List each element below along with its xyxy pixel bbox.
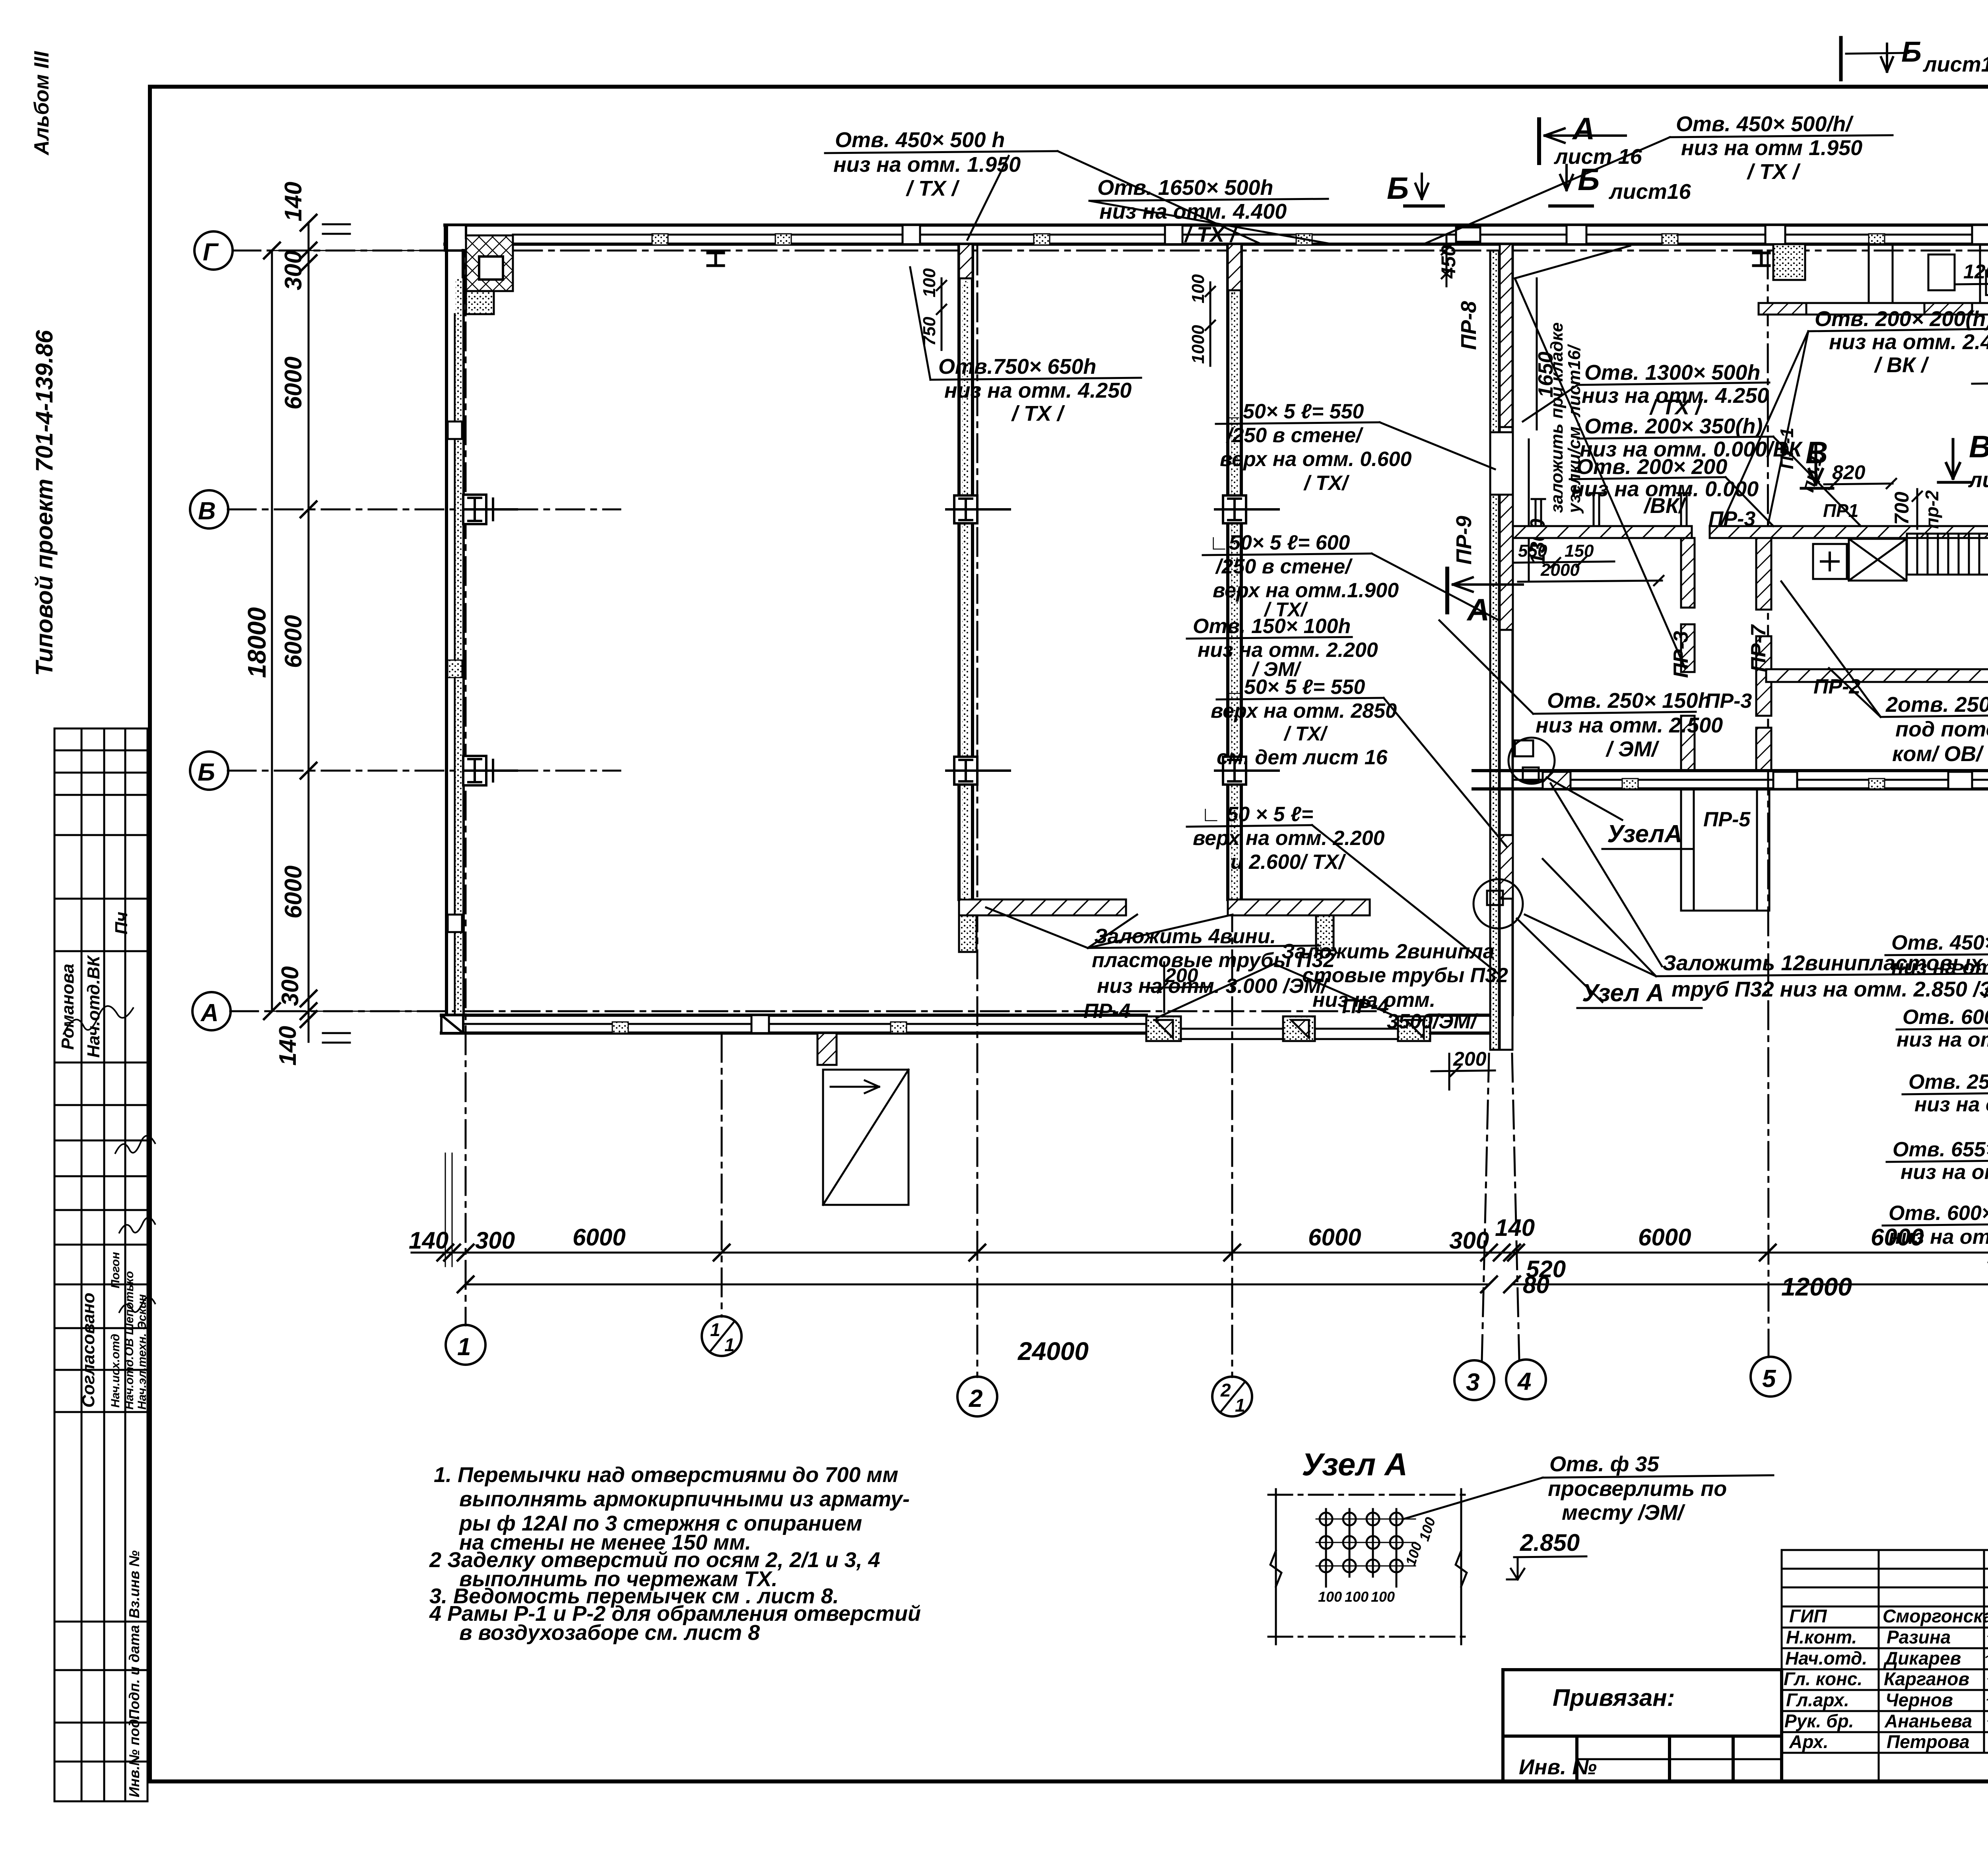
axis dash-dot lines xyxy=(228,229,1988,1377)
svg-text:лист16: лист16 xyxy=(1608,180,1691,204)
annotation Отв.750х650 xyxy=(938,355,1132,425)
svg-text:Привязан:: Привязан: xyxy=(1553,1684,1675,1711)
svg-text:Отв.750× 650h: Отв.750× 650h xyxy=(938,355,1096,379)
svg-text:Нач.отд.: Нач.отд. xyxy=(1785,1648,1867,1669)
узел А labels on plan xyxy=(1582,820,1682,1007)
svg-text:Инв.№ под.: Инв.№ под. xyxy=(126,1715,142,1797)
svg-text:Рук. бр.: Рук. бр. xyxy=(1784,1711,1854,1731)
small rooms top right xyxy=(1773,244,1988,303)
svg-text:ПР-3: ПР-3 xyxy=(1708,507,1755,530)
привязан box xyxy=(1503,1670,1782,1781)
svg-text:Узел А: Узел А xyxy=(1302,1447,1408,1482)
door opening ПР-4 jambs in bottom wall xyxy=(1146,1016,1430,1041)
svg-text:2отв. 250× 250h: 2отв. 250× 250h xyxy=(1885,693,1988,717)
svg-text:пр-2: пр-2 xyxy=(1922,490,1942,529)
svg-text:140: 140 xyxy=(409,1227,448,1254)
top wall window mullion blocks xyxy=(652,225,1988,245)
svg-text:100: 100 xyxy=(920,268,939,297)
section mark А top xyxy=(1539,111,1642,169)
section mark Б left xyxy=(1387,171,1443,206)
svg-text:Гл. конс.: Гл. конс. xyxy=(1784,1669,1862,1689)
Заложить 12 винипластовых xyxy=(1662,951,1988,1001)
svg-text:верх на отм. 0.600: верх на отм. 0.600 xyxy=(1220,448,1412,471)
svg-text:В: В xyxy=(198,497,216,525)
svg-text:200: 200 xyxy=(1453,1048,1487,1070)
svg-text:Б: Б xyxy=(1387,171,1409,206)
svg-text:Дикарев: Дикарев xyxy=(1883,1648,1961,1669)
leader lines узел А xyxy=(1517,777,1662,1002)
svg-text:/ВК/: /ВК/ xyxy=(1643,494,1687,518)
svg-text:Пч: Пч xyxy=(112,912,131,934)
right section: horizontal wall band ПР-3 level xyxy=(1513,526,1988,538)
svg-text:Нач.отд.ВК: Нач.отд.ВК xyxy=(84,955,103,1058)
svg-text:Отв. 450× 500/h/: Отв. 450× 500/h/ xyxy=(1676,112,1854,136)
svg-text:Отв. 450× 450: Отв. 450× 450 xyxy=(1891,931,1988,954)
svg-text:300: 300 xyxy=(277,966,303,1006)
interior wall axis 2/1 xyxy=(1228,244,1241,899)
svg-text:Отв. 600× 1000: Отв. 600× 1000 xyxy=(1889,1202,1988,1225)
svg-text:низ на отм. 3.200: низ на отм. 3.200 xyxy=(1901,1161,1988,1184)
Заложить 4 вини xyxy=(1092,925,1335,998)
450 dim at joint wall top xyxy=(1456,227,1480,242)
svg-text:700: 700 xyxy=(1891,491,1913,525)
grid circle 5 xyxy=(1751,1357,1790,1397)
svg-text:Романова: Романова xyxy=(58,963,78,1050)
svg-text:Г: Г xyxy=(203,239,219,266)
svg-text:ГИП: ГИП xyxy=(1789,1606,1827,1626)
svg-text:В: В xyxy=(1969,429,1988,464)
svg-text:Отв. 600× 600: Отв. 600× 600 xyxy=(1903,1006,1988,1029)
svg-text:Инв. №: Инв. № xyxy=(1519,1755,1597,1779)
svg-text:/250 в стене/: /250 в стене/ xyxy=(1226,424,1364,447)
left dimension numbers xyxy=(243,182,307,1066)
svg-text:5: 5 xyxy=(1762,1365,1776,1393)
Заложить 2 винипла xyxy=(1281,940,1508,1033)
vertical interior wall right section xyxy=(1756,538,1771,771)
svg-text:низ на отм 1.950: низ на отм 1.950 xyxy=(1681,136,1862,160)
узел А detail frame xyxy=(1268,1489,1471,1644)
svg-text:1: 1 xyxy=(1235,1395,1245,1416)
bottom dimension numbers xyxy=(409,1214,1988,1366)
svg-text:Узел А: Узел А xyxy=(1582,979,1664,1007)
svg-text:ПР-5: ПР-5 xyxy=(1703,808,1751,831)
svg-text:450: 450 xyxy=(1437,245,1460,279)
svg-text:12000: 12000 xyxy=(1781,1272,1852,1301)
section mark Б top right xyxy=(1841,36,1988,80)
big diagonal in right hall xyxy=(1515,278,1685,668)
svg-text:/ ТХ /: / ТХ / xyxy=(1747,160,1801,184)
2отв 250х250 под потолком xyxy=(1885,693,1988,766)
узел А circle grid xyxy=(1316,1509,1415,1587)
svg-text:низ на отм. 2.400: низ на отм. 2.400 xyxy=(1829,330,1988,354)
svg-text:А: А xyxy=(200,999,219,1027)
grid circle 4 xyxy=(1506,1360,1546,1399)
svg-text:и 2.600/ ТХ/: и 2.600/ ТХ/ xyxy=(1231,851,1347,874)
svg-text:/ ТХ/: / ТХ/ xyxy=(1283,723,1328,745)
svg-text:Отв. 450× 500 h: Отв. 450× 500 h xyxy=(835,128,1005,152)
svg-text:Отв. ф 35: Отв. ф 35 xyxy=(1549,1452,1659,1476)
svg-text:/ОВ/: /ОВ/ xyxy=(1983,979,1988,1002)
svg-text:520: 520 xyxy=(1526,1256,1566,1282)
svg-text:550: 550 xyxy=(1518,541,1547,561)
pilaster and ramp below bottom wall near axis 2 xyxy=(817,1033,909,1205)
svg-text:100: 100 xyxy=(1371,1589,1395,1605)
svg-text:Альбом III: Альбом III xyxy=(30,51,53,156)
grid circle Г xyxy=(194,231,233,270)
bottom exterior wall row А xyxy=(441,1015,1489,1033)
svg-text:месту /ЭМ/: месту /ЭМ/ xyxy=(1562,1501,1685,1525)
svg-text:1: 1 xyxy=(710,1319,720,1340)
1650 1300 rotated dims xyxy=(1529,278,1537,581)
svg-text:/ ВК /: / ВК / xyxy=(1874,353,1929,377)
svg-text:2: 2 xyxy=(969,1385,982,1412)
svg-text:низ на отм. 4.750: низ на отм. 4.750 xyxy=(1914,1093,1988,1116)
svg-text:Отв. 250× 250: Отв. 250× 250 xyxy=(1908,1070,1988,1094)
узел А marker circles on plan xyxy=(1474,738,1555,928)
svg-text:ПР-8: ПР-8 xyxy=(1457,301,1481,350)
svg-text:/ ЭМ/: / ЭМ/ xyxy=(1606,737,1660,761)
svg-text:лист16: лист16 xyxy=(1922,52,1988,76)
svg-text:100: 100 xyxy=(1188,274,1208,303)
svg-text:ПР-3: ПР-3 xyxy=(1670,631,1693,678)
svg-text:труб П32 низ на отм. 2.850 /Э: труб П32 низ на отм. 2.850 /ЭМ/ xyxy=(1672,977,1988,1001)
svg-text:Подп. и дата: Подп. и дата xyxy=(126,1625,142,1720)
svg-text:6000: 6000 xyxy=(280,866,307,919)
svg-text:ПР1: ПР1 xyxy=(1823,500,1858,521)
svg-text:Арх.: Арх. xyxy=(1789,1731,1829,1752)
svg-text:140: 140 xyxy=(280,182,307,221)
annotation Отв.450х500 top left xyxy=(833,128,1021,200)
svg-text:300: 300 xyxy=(1449,1227,1489,1254)
svg-text:выполнять армокирпичными из: выполнять армокирпичными из армату- xyxy=(459,1487,910,1511)
svg-text:6000: 6000 xyxy=(280,357,307,410)
svg-text:Сморгонская: Сморгонская xyxy=(1883,1606,1988,1626)
pipe posts above band xyxy=(1532,493,1691,526)
pilaster row Б on left wall xyxy=(463,756,517,785)
interior wall axis 2 xyxy=(959,244,973,899)
svg-text:Гл.арх.: Гл.арх. xyxy=(1786,1690,1849,1710)
svg-text:4: 4 xyxy=(1517,1368,1531,1395)
section mark Б with лист16 xyxy=(1550,162,1691,206)
grid circle 3 xyxy=(1454,1360,1494,1400)
svg-text:ПР-3: ПР-3 xyxy=(1705,690,1752,713)
grid circle Б xyxy=(190,752,228,790)
svg-text:120: 120 xyxy=(1963,260,1988,283)
margin signatures xyxy=(64,1006,155,1312)
svg-text:Типовой проект 701-4-139.86: Типовой проект 701-4-139.86 xyxy=(31,330,58,676)
svg-text:в воздухозаборе см. лист: в воздухозаборе см. лист 8 xyxy=(459,1621,760,1645)
svg-text:300: 300 xyxy=(280,251,307,290)
left exterior wall axis 1 xyxy=(447,225,463,1033)
узел А leader и text xyxy=(1548,1452,1727,1525)
svg-text:140: 140 xyxy=(274,1026,301,1066)
svg-text:Разина: Разина xyxy=(1887,1627,1951,1647)
svg-text:2.850: 2.850 xyxy=(1520,1529,1580,1556)
cross box room xyxy=(1813,539,1906,581)
svg-text:УзелА: УзелА xyxy=(1607,820,1682,848)
band ПР-2 xyxy=(1766,669,1988,682)
svg-text:Ананьева: Ананьева xyxy=(1884,1711,1972,1731)
grid circle В xyxy=(190,490,228,528)
550 150 2000 dims under joint xyxy=(1518,541,1594,580)
svg-text:Н.конт.: Н.конт. xyxy=(1786,1627,1857,1647)
svg-text:Отв. 250× 150h: Отв. 250× 150h xyxy=(1547,689,1711,713)
svg-text:/ ТХ /: / ТХ / xyxy=(1011,402,1065,425)
vestibule below xyxy=(1681,789,1769,911)
svg-text:просверлить по: просверлить по xyxy=(1548,1477,1727,1501)
grid circle А xyxy=(192,992,231,1030)
svg-text:∟50× 5 ℓ= 550: ∟50× 5 ℓ= 550 xyxy=(1224,676,1365,699)
svg-text:низ на отм. 1.950: низ на отм. 1.950 xyxy=(833,153,1021,177)
svg-text:300: 300 xyxy=(475,1227,515,1254)
svg-text:18000: 18000 xyxy=(243,607,271,678)
svg-text:Отв. 200× 200: Отв. 200× 200 xyxy=(1576,455,1727,479)
interior stair treads xyxy=(1907,534,1988,575)
svg-text:Заложить 4вини.: Заложить 4вини. xyxy=(1094,925,1276,948)
left leader text column near joint wall xyxy=(1193,400,1412,874)
svg-text:2: 2 xyxy=(1220,1380,1231,1400)
annotation Отв.1650х500 xyxy=(1097,176,1287,247)
svg-text:6000: 6000 xyxy=(280,615,307,668)
svg-text:1. Перемычки над отверстиями: 1. Перемычки над отверстиями до 700 мм xyxy=(434,1463,898,1487)
svg-text:под потол-: под потол- xyxy=(1895,717,1988,741)
middle annotations Отв.1300х500 block xyxy=(1582,361,1769,419)
svg-text:100: 100 xyxy=(1345,1589,1369,1605)
svg-text:3: 3 xyxy=(1466,1369,1479,1396)
svg-text:низ на отм. 2.900: низ на отм. 2.900 xyxy=(1889,1226,1988,1249)
grid circle 2/1 xyxy=(1212,1377,1252,1416)
svg-text:3500/ЭМ/: 3500/ЭМ/ xyxy=(1387,1010,1479,1033)
I-beam symbols wall 2 xyxy=(962,282,969,899)
svg-text:Заложить 2винипла: Заложить 2винипла xyxy=(1281,940,1495,963)
svg-text:Б: Б xyxy=(198,759,215,786)
svg-text:А: А xyxy=(1466,592,1489,627)
svg-text:Отв. 200× 200(h): Отв. 200× 200(h) xyxy=(1815,307,1988,331)
corridor wall x4228 xyxy=(1681,538,1695,771)
svg-text:низ на отм. 3.650: низ на отм. 3.650 xyxy=(1891,956,1988,979)
annotation Отв 200х200(h) 2.400 xyxy=(1815,307,1988,377)
svg-text:низ на отм. 2.500: низ на отм. 2.500 xyxy=(1536,713,1723,737)
svg-text:24000: 24000 xyxy=(1017,1337,1089,1366)
svg-text:200: 200 xyxy=(1165,964,1198,987)
pilaster row В on left wall xyxy=(463,495,517,524)
svg-text:Отв. 1650× 500h: Отв. 1650× 500h xyxy=(1097,176,1273,200)
svg-text:низ на отм. 4.250: низ на отм. 4.250 xyxy=(944,379,1132,402)
svg-text:Б: Б xyxy=(1578,162,1600,197)
svg-text:∟ 50 × 5 ℓ=: ∟ 50 × 5 ℓ= xyxy=(1201,803,1313,826)
notes block xyxy=(429,1463,921,1645)
svg-text:см. дет лист 16: см. дет лист 16 xyxy=(1217,746,1388,769)
svg-text:низ на отм. 3.000 /ЭМ/: низ на отм. 3.000 /ЭМ/ xyxy=(1097,975,1329,998)
small plan left leader texts xyxy=(1889,931,1988,1351)
svg-text:верх на отм. 2.200: верх на отм. 2.200 xyxy=(1193,827,1385,850)
svg-text:ПР-9: ПР-9 xyxy=(1452,516,1476,565)
grid circle 1/1 xyxy=(702,1316,742,1356)
svg-text:Отв. 1300× 500h: Отв. 1300× 500h xyxy=(1584,361,1760,385)
bottom wall row Б of right section xyxy=(1473,771,1988,789)
svg-text:150: 150 xyxy=(1565,541,1594,561)
margin rotated texts xyxy=(30,51,149,1797)
svg-text:ПР-2: ПР-2 xyxy=(1813,675,1860,698)
svg-text:ПР-4: ПР-4 xyxy=(1083,1000,1130,1023)
svg-text:заложить при кладке: заложить при кладке xyxy=(1547,322,1567,513)
svg-text:100: 100 xyxy=(1318,1589,1342,1605)
svg-text:/ ТХ/: / ТХ/ xyxy=(1303,472,1350,495)
top-left corner pilaster xyxy=(445,225,513,314)
svg-text:стовые трубы П32: стовые трубы П32 xyxy=(1302,964,1508,987)
В section marks middle xyxy=(1801,429,1988,492)
svg-text:140: 140 xyxy=(1495,1214,1535,1241)
svg-text:/250 в стене/: /250 в стене/ xyxy=(1215,555,1353,578)
svg-text:верх на отм. 2850: верх на отм. 2850 xyxy=(1211,699,1397,723)
svg-text:∟50× 5 ℓ= 550: ∟50× 5 ℓ= 550 xyxy=(1223,400,1364,423)
expansion joint double wall axes 3-4 xyxy=(1490,244,1513,1050)
signature table xyxy=(1782,1550,1988,1781)
left dimension lines xyxy=(264,215,447,1043)
svg-text:Отв. 200× 350(h): Отв. 200× 350(h) xyxy=(1584,414,1763,438)
top exterior wall row Г xyxy=(445,225,1988,244)
annotation Отв.450х500 right top xyxy=(1676,112,1862,184)
svg-text:Чернов: Чернов xyxy=(1885,1690,1953,1710)
Отв 250х150 xyxy=(1536,689,1723,761)
А section mark middle left xyxy=(1447,569,1523,627)
svg-text:ПР-1: ПР-1 xyxy=(1776,427,1797,469)
svg-text:Отв. 150× 100h: Отв. 150× 100h xyxy=(1193,615,1351,638)
svg-text:∟50× 5 ℓ= 600: ∟50× 5 ℓ= 600 xyxy=(1209,531,1350,554)
left margin table xyxy=(54,728,148,1801)
svg-text:ПР-4: ПР-4 xyxy=(1342,995,1389,1018)
svg-text:1: 1 xyxy=(724,1334,735,1355)
svg-text:Погон: Погон xyxy=(109,1252,122,1288)
grid circle 2 xyxy=(957,1377,997,1416)
svg-text:Вз.инв №: Вз.инв № xyxy=(126,1550,142,1618)
svg-text:ком/ ОВ/: ком/ ОВ/ xyxy=(1892,742,1984,766)
svg-text:А: А xyxy=(1572,111,1595,146)
svg-text:Нач.исх.отд: Нач.исх.отд xyxy=(109,1334,122,1408)
signature squiggles xyxy=(1986,1608,1988,1744)
svg-text:Петрова: Петрова xyxy=(1887,1731,1970,1752)
bottom dimension lines xyxy=(412,1153,1988,1296)
svg-text:6000: 6000 xyxy=(573,1224,625,1251)
svg-text:/ ТХ /: / ТХ / xyxy=(906,177,960,200)
svg-text:Согласовано: Согласовано xyxy=(79,1293,98,1408)
svg-text:Нач.отд.ОВ Шепотько: Нач.отд.ОВ Шепотько xyxy=(123,1271,136,1410)
grid circle 1 xyxy=(446,1325,485,1365)
svg-text:лист16: лист16 xyxy=(1968,468,1988,492)
svg-text:1: 1 xyxy=(457,1333,471,1361)
right section: upper horizontal wall xyxy=(1759,303,1988,315)
svg-text:Карганов: Карганов xyxy=(1884,1669,1969,1689)
svg-text:низ на отм. 4.500/ОВ/: низ на отм. 4.500/ОВ/ xyxy=(1897,1028,1988,1051)
svg-text:ПР-7: ПР-7 xyxy=(1747,624,1770,672)
svg-text:6000: 6000 xyxy=(1308,1224,1361,1251)
svg-text:Отв. 655× 503: Отв. 655× 503 xyxy=(1893,1138,1988,1161)
svg-text:6000: 6000 xyxy=(1638,1224,1691,1251)
